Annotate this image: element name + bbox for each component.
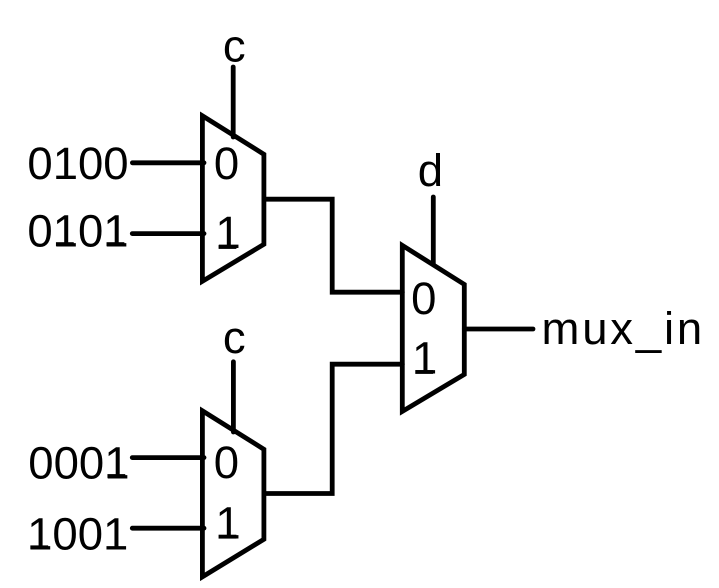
- wire U3 output (mux_in net): [464, 327, 533, 332]
- svg-text:0: 0: [214, 437, 239, 488]
- svg-text:mux_in: mux_in: [542, 303, 705, 354]
- wire 1001 to U2 input 1: [132, 526, 204, 531]
- svg-text:0: 0: [411, 273, 436, 324]
- label 0001 (U2 input 0 value): [28, 437, 129, 488]
- wire 0100 to U1 input 0: [132, 160, 204, 165]
- svg-text:1: 1: [412, 333, 437, 384]
- svg-text:d: d: [418, 145, 443, 196]
- pin label 1 (U1 input 1): [215, 207, 240, 258]
- wire U2 select input: [231, 362, 236, 432]
- pin label 1 (U3 input 1): [412, 333, 437, 384]
- wire U1 select input: [231, 67, 236, 137]
- svg-text:0101: 0101: [27, 205, 128, 256]
- wire U1 output to U3 input 0 (elbow): [264, 199, 402, 292]
- svg-text:1: 1: [215, 498, 240, 549]
- mux U1 (top-left 2:1 multiplexer body): [202, 116, 264, 281]
- mux U3 (right 2:1 multiplexer body): [402, 245, 464, 411]
- wire U3 select input: [431, 197, 436, 264]
- wire U2 output to U3 input 1 (elbow): [264, 364, 402, 493]
- wire 0101 to U1 input 1: [132, 231, 204, 236]
- svg-text:0100: 0100: [27, 138, 128, 189]
- wire 0001 to U2 input 0: [132, 455, 204, 460]
- svg-text:1001: 1001: [27, 509, 128, 560]
- label 0101 (U1 input 1 value): [27, 205, 128, 256]
- mux U2 (bottom-left 2:1 multiplexer body): [202, 411, 264, 577]
- svg-text:c: c: [223, 21, 246, 72]
- svg-text:1: 1: [215, 207, 240, 258]
- label 1001 (U2 input 1 value): [27, 509, 128, 560]
- svg-text:c: c: [223, 312, 246, 363]
- pin label 1 (U2 input 1): [215, 498, 240, 549]
- svg-text:0: 0: [214, 138, 239, 189]
- svg-text:0001: 0001: [28, 437, 129, 488]
